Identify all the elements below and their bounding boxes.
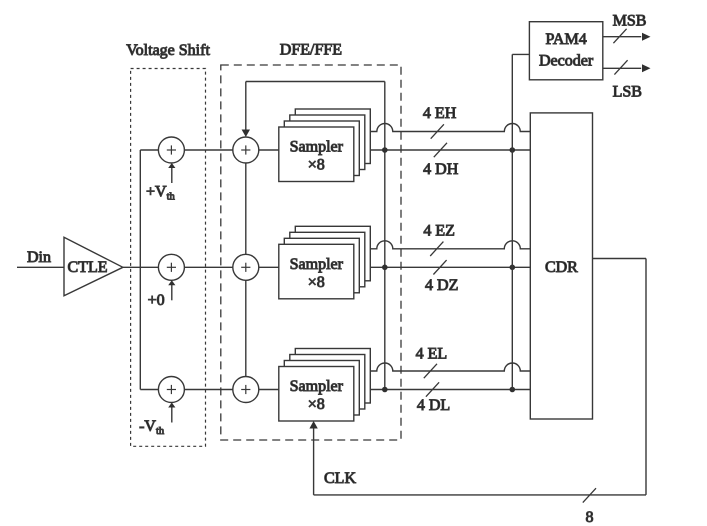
svg-text:8: 8 [586,509,594,526]
svg-text:Sampler: Sampler [290,256,344,273]
svg-text:Voltage Shift: Voltage Shift [126,42,210,59]
svg-text:4 EL: 4 EL [416,346,448,363]
svg-text:Sampler: Sampler [290,378,344,395]
svg-text:CDR: CDR [545,259,578,276]
svg-text:4 DL: 4 DL [417,397,450,414]
svg-text:×8: ×8 [308,157,325,174]
svg-text:PAM4: PAM4 [545,31,586,48]
svg-text:DFE/FFE: DFE/FFE [280,42,342,59]
svg-text:Decoder: Decoder [539,53,594,70]
svg-text:+0: +0 [148,292,165,309]
svg-text:CLK: CLK [324,470,356,487]
svg-text:4 EH: 4 EH [423,105,457,122]
svg-text:4 DZ: 4 DZ [425,277,458,294]
svg-text:4 EZ: 4 EZ [423,223,455,240]
svg-text:×8: ×8 [308,274,325,291]
svg-text:LSB: LSB [613,84,642,101]
svg-text:Sampler: Sampler [290,139,344,156]
svg-text:4 DH: 4 DH [423,161,459,178]
svg-text:Din: Din [27,249,51,266]
svg-text:×8: ×8 [308,396,325,413]
svg-text:CTLE: CTLE [68,259,108,276]
svg-text:MSB: MSB [613,13,647,30]
